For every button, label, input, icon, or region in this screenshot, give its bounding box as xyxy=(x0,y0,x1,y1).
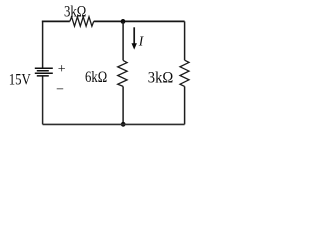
wire top-left horizontal xyxy=(42,20,70,22)
battery V1 15V source plates xyxy=(35,68,53,76)
wire right branch upper xyxy=(184,21,186,60)
current arrow I xyxy=(132,27,137,49)
wire middle branch lower xyxy=(122,86,124,124)
svg-text:+: + xyxy=(58,62,66,77)
svg-text:−: − xyxy=(56,82,64,97)
svg-text:I: I xyxy=(138,33,145,48)
svg-text:3kΩ: 3kΩ xyxy=(64,3,86,20)
svg-text:3kΩ: 3kΩ xyxy=(148,69,174,86)
wire top-left segment (battery top to R1 left) xyxy=(42,21,44,69)
node B junction dot (bottom) xyxy=(121,122,126,127)
wire right branch lower xyxy=(184,86,186,124)
svg-text:15V: 15V xyxy=(9,71,31,88)
wire middle branch upper xyxy=(122,21,124,60)
svg-text:6kΩ: 6kΩ xyxy=(85,69,107,86)
resistor R3 3kΩ (right vertical zigzag) xyxy=(180,60,189,86)
wire left lower segment (battery bottom to bottom wire) xyxy=(42,76,44,125)
resistor R1 3kΩ (top horizontal zigzag) xyxy=(70,17,94,26)
wire bottom xyxy=(43,123,185,125)
wire top-right segment xyxy=(94,20,185,22)
node A junction dot (top) xyxy=(121,19,126,24)
resistor R2 6kΩ (middle vertical zigzag) xyxy=(118,60,127,86)
